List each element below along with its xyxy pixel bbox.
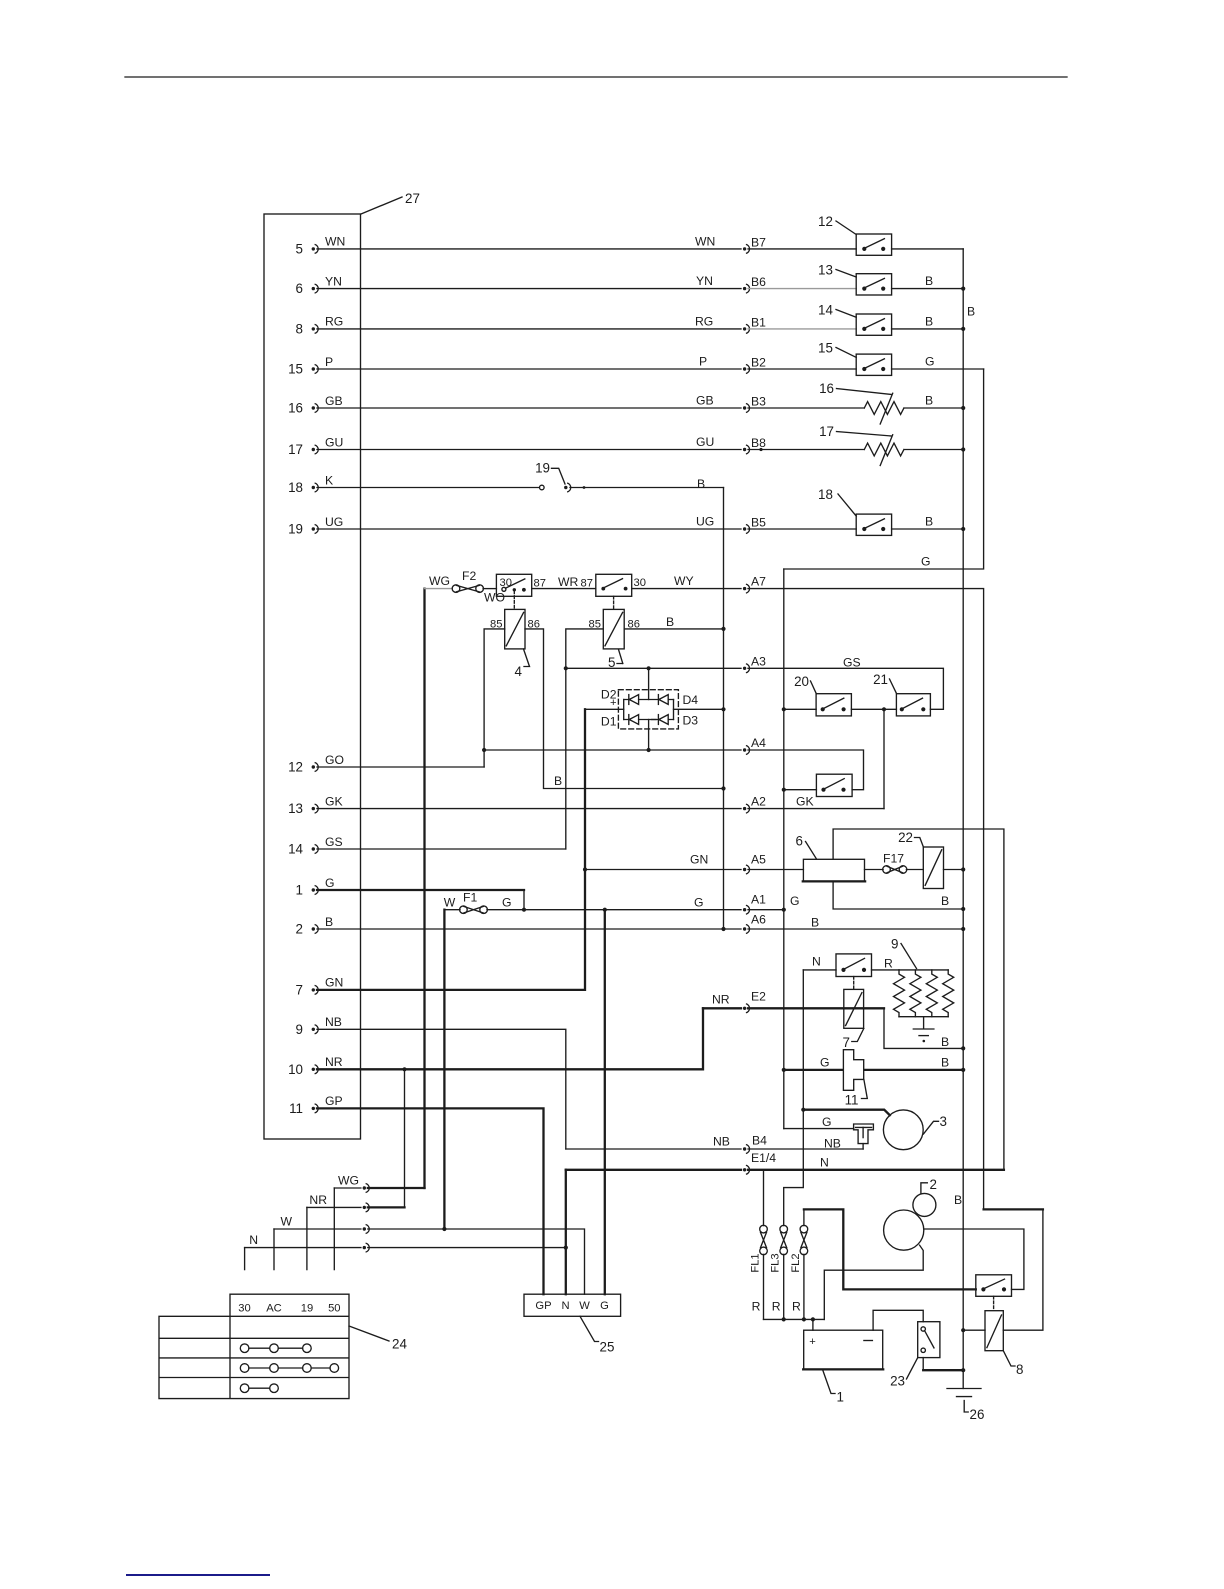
wire B pin2 to A6 [317, 913, 963, 934]
svg-text:30: 30 [238, 1303, 250, 1315]
svg-text:3: 3 [940, 1114, 947, 1129]
wire WN pin5 to B7 [317, 235, 856, 254]
wire G from switch15 down and jog left [784, 369, 984, 569]
svg-text:A1: A1 [751, 893, 766, 907]
svg-text:1: 1 [837, 1390, 844, 1405]
svg-text:B: B [925, 274, 933, 288]
svg-text:E1/4: E1/4 [751, 1151, 776, 1165]
pin 18 (K) of C27 [288, 473, 333, 495]
svg-text:B3: B3 [751, 395, 766, 409]
resistor bank 9 [891, 937, 954, 1017]
pin 1 (G) of C27 [296, 876, 335, 898]
svg-text:GK: GK [796, 795, 814, 809]
wire W vertical from F1 [443, 910, 445, 1229]
circuit breaker 11 [843, 1050, 867, 1108]
wire box6 bottom to B bus [833, 881, 963, 909]
diode bridge dashed enclosure [618, 690, 678, 729]
wire P pin15 to B2 [317, 355, 856, 374]
svg-text:23: 23 [890, 1374, 905, 1389]
svg-text:NB: NB [713, 1135, 730, 1149]
pin 8 (RG) of C27 [296, 315, 344, 337]
svg-text:G: G [502, 896, 511, 910]
svg-text:GU: GU [696, 435, 714, 449]
switch GK [784, 774, 852, 796]
svg-text:B: B [554, 774, 562, 788]
svg-text:30: 30 [634, 577, 646, 589]
wire GB pin16 to B3 [317, 394, 864, 413]
wire YN pin6 to B6 [317, 274, 856, 293]
fuse F1 [444, 891, 512, 914]
svg-text:N: N [249, 1233, 258, 1247]
wire G vertical from F1 to plug box [604, 910, 606, 1294]
fuse FL2 [790, 1225, 808, 1319]
bridge left wire from GN [585, 708, 624, 710]
svg-text:2: 2 [930, 1177, 937, 1192]
wire A5 row GN [585, 853, 803, 875]
svg-text:9: 9 [296, 1022, 303, 1037]
svg-text:R: R [752, 1300, 761, 1314]
pin 5 (WN) of C27 [296, 235, 346, 257]
svg-text:G: G [822, 1115, 831, 1129]
svg-text:B: B [666, 615, 674, 629]
svg-text:NR: NR [325, 1055, 343, 1069]
svg-text:WG: WG [338, 1174, 359, 1188]
svg-text:B: B [811, 916, 819, 930]
svg-text:2: 2 [296, 922, 303, 937]
wire WY relay5 to A7 [632, 588, 741, 590]
variable resistor 17 [819, 424, 904, 466]
relay 4 coil [490, 609, 540, 649]
wire dynamo D to switch 8 [924, 1229, 1024, 1289]
svg-text:FL2: FL2 [790, 1253, 802, 1272]
wire N E1/4 row [566, 1151, 1004, 1175]
wire RG pin8 to B1 [317, 315, 856, 334]
wire resistor17 out [904, 449, 963, 451]
svg-text:25: 25 [600, 1340, 615, 1355]
svg-text:WG: WG [429, 574, 450, 588]
svg-text:B: B [325, 915, 333, 929]
fuse FL3 [770, 1225, 788, 1319]
pin 11 (GP) of C27 [289, 1094, 343, 1116]
harness pin NR [307, 1069, 405, 1269]
svg-text:RG: RG [325, 315, 343, 329]
svg-text:WN: WN [695, 235, 715, 249]
wire NB B4 row [566, 1134, 863, 1154]
svg-text:R: R [792, 1300, 801, 1314]
svg-text:B: B [954, 1193, 962, 1207]
harness pin N [245, 1233, 566, 1270]
wire B switch13 out [892, 274, 964, 288]
instrument stabilizer 6 [796, 834, 866, 882]
wire GU pin17 to B8 [317, 435, 864, 454]
svg-text:B1: B1 [751, 316, 766, 330]
svg-text:10: 10 [288, 1062, 303, 1077]
svg-text:B: B [967, 305, 975, 319]
wire K pin18 to switch 19 [317, 487, 539, 489]
battery 1 [803, 1310, 923, 1404]
pin 7 (GN) of C27 [296, 976, 344, 998]
svg-text:B: B [941, 894, 949, 908]
fuse FL1 [750, 1225, 768, 1319]
battery master switch 23 [890, 1322, 940, 1389]
svg-text:GP: GP [325, 1094, 343, 1108]
label 5 [608, 650, 623, 671]
svg-text:16: 16 [288, 401, 303, 416]
svg-text:22: 22 [898, 830, 913, 845]
bridge right wire to B node [674, 708, 724, 710]
svg-text:UG: UG [325, 515, 343, 529]
relay coil 8 [963, 1311, 1023, 1377]
svg-text:F1: F1 [463, 891, 477, 905]
switch contact 14 [818, 303, 892, 336]
earth ground 26 [947, 1389, 984, 1423]
label 24 leader [349, 1326, 407, 1352]
svg-text:N: N [561, 1300, 569, 1312]
pin 9 (NB) of C27 [296, 1015, 342, 1037]
wire UG pin19 to B5 [317, 515, 856, 534]
svg-text:D3: D3 [683, 714, 699, 728]
switch contact 18 [818, 487, 892, 535]
svg-text:GB: GB [696, 394, 714, 408]
svg-text:6: 6 [796, 834, 803, 849]
svg-text:17: 17 [288, 442, 303, 457]
svg-text:87: 87 [581, 578, 593, 590]
svg-text:WR: WR [558, 575, 579, 589]
bridge stem to A4 [647, 720, 651, 753]
svg-text:7: 7 [843, 1035, 850, 1050]
svg-text:K: K [325, 473, 333, 487]
svg-text:21: 21 [873, 672, 888, 687]
diode D4 [658, 693, 698, 707]
diode D1 [601, 715, 639, 729]
wire G switch15 out [892, 355, 984, 369]
svg-text:8: 8 [1016, 1362, 1023, 1377]
svg-text:G: G [600, 1300, 609, 1312]
svg-text:15: 15 [288, 362, 303, 377]
svg-text:G: G [325, 876, 334, 890]
label 25 leader [580, 1316, 614, 1354]
wire NR pin10 to E2 [317, 1008, 703, 1071]
wire GS row to switches 20/21 [784, 656, 861, 710]
svg-text:6: 6 [296, 281, 303, 296]
wire R charge line FL2 to cutout switch 8 [804, 1209, 976, 1289]
svg-text:18: 18 [818, 487, 833, 502]
svg-text:13: 13 [288, 801, 303, 816]
wire B switch18 out [892, 515, 964, 529]
wire E1/4 to FL1 [763, 1170, 765, 1226]
relay 5 contact (87-30) [596, 574, 646, 609]
fuse F2 [425, 569, 505, 605]
wire A3 row [566, 654, 944, 709]
svg-text:W: W [444, 896, 456, 910]
pin 17 (GU) of C27 [288, 435, 343, 457]
diode D2 [601, 688, 639, 705]
svg-text:G: G [694, 896, 703, 910]
svg-text:A3: A3 [751, 654, 766, 668]
svg-text:WN: WN [325, 235, 345, 249]
ground under resistor bank [913, 1017, 934, 1043]
wire B relay7 out [884, 1008, 963, 1049]
svg-text:16: 16 [819, 381, 834, 396]
relay coil 22 [898, 830, 963, 908]
wire GK pin13 row to A2 [317, 795, 884, 814]
svg-text:26: 26 [970, 1407, 985, 1422]
svg-text:GK: GK [325, 794, 343, 808]
svg-text:24: 24 [392, 1337, 407, 1352]
svg-text:GB: GB [325, 394, 343, 408]
svg-text:D1: D1 [601, 715, 617, 729]
svg-text:W: W [579, 1300, 590, 1312]
wire GO pin12 run [317, 766, 484, 768]
svg-text:GU: GU [325, 435, 343, 449]
cutout switch 8 [976, 1275, 1012, 1311]
wire NB plug to B4 [824, 1137, 863, 1151]
svg-text:17: 17 [819, 424, 834, 439]
switch 21 [873, 672, 930, 716]
switch contact 12 [818, 214, 892, 255]
wire B switch14 out [892, 315, 964, 329]
svg-text:30: 30 [500, 577, 512, 589]
pin 13 (GK) of C27 [288, 794, 343, 816]
connector C27 body [264, 214, 361, 1139]
svg-text:19: 19 [535, 461, 550, 476]
svg-text:E2: E2 [751, 989, 766, 1003]
svg-text:B: B [941, 1056, 949, 1070]
svg-text:NR: NR [712, 992, 730, 1006]
svg-text:WY: WY [674, 574, 694, 588]
svg-text:A6: A6 [751, 913, 766, 927]
wire GN pin7 up to bridge [317, 709, 587, 990]
svg-text:UG: UG [696, 515, 714, 529]
pin 6 (YN) of C27 [296, 274, 342, 296]
pin 19 (UG) of C27 [288, 515, 343, 537]
svg-text:N: N [820, 1155, 829, 1169]
svg-text:B5: B5 [751, 516, 766, 530]
wire coil4 86 to B [525, 629, 724, 789]
wire switch12 out to B bus [892, 248, 964, 250]
svg-text:20: 20 [794, 674, 809, 689]
wire B resistor16 out [904, 394, 963, 408]
fuel gauge sender plug [854, 1124, 874, 1144]
svg-text:A7: A7 [751, 575, 766, 589]
svg-text:B: B [941, 1035, 949, 1049]
wire A7 net to relay 8 [674, 574, 984, 1209]
svg-text:GN: GN [690, 853, 708, 867]
switch contact 15 [818, 341, 892, 376]
relay 5 coil [589, 609, 640, 649]
svg-text:B6: B6 [751, 275, 766, 289]
wire NB pin9 down to B4 [317, 1029, 566, 1149]
B bus vertical [963, 249, 975, 1389]
svg-text:D4: D4 [683, 693, 699, 707]
svg-text:R: R [884, 957, 893, 971]
svg-text:GO: GO [325, 753, 344, 767]
battery positive rail [764, 1317, 825, 1321]
wire coil5 86 to B [624, 615, 723, 629]
label 27 leader [361, 191, 420, 214]
fuse F17 [865, 852, 924, 874]
svg-text:G: G [820, 1056, 829, 1070]
wire GP pin11 down to plug box [317, 1108, 544, 1294]
label 4 [515, 649, 530, 679]
wire WR relay4 to relay5 [532, 575, 596, 590]
diode D3 [658, 714, 698, 728]
switch contact 13 [818, 263, 892, 296]
dynamo 2 [884, 1177, 963, 1250]
svg-text:B: B [925, 394, 933, 408]
svg-text:+: + [809, 1336, 816, 1348]
svg-text:A4: A4 [751, 736, 766, 750]
wire G to breaker 11 to B [784, 1056, 963, 1070]
svg-text:11: 11 [289, 1101, 303, 1116]
svg-text:FL1: FL1 [750, 1253, 762, 1272]
wire between switch 20 and 21 [851, 707, 896, 711]
svg-text:W: W [280, 1215, 292, 1229]
svg-text:5: 5 [296, 242, 303, 257]
wire WG vertical [423, 589, 425, 1188]
wire G vertical bus to lamp [782, 569, 800, 1129]
svg-text:13: 13 [818, 263, 833, 278]
pin 10 (NR) of C27 [288, 1055, 343, 1077]
wire node B vertical (switch19 to A6) [721, 488, 725, 932]
svg-text:G: G [925, 355, 934, 369]
pin 2 (B) of C27 [296, 915, 334, 937]
svg-text:GN: GN [325, 976, 343, 990]
svg-text:P: P [699, 355, 707, 369]
bridge stem to A3 [648, 668, 650, 699]
switch N-R of relay 7 [803, 954, 899, 990]
svg-text:FL3: FL3 [770, 1253, 782, 1272]
svg-text:15: 15 [818, 341, 833, 356]
svg-text:4: 4 [515, 664, 523, 679]
svg-text:50: 50 [328, 1303, 340, 1315]
svg-text:G: G [921, 555, 930, 569]
svg-text:11: 11 [845, 1093, 859, 1108]
svg-text:P: P [325, 355, 333, 369]
svg-text:NB: NB [325, 1015, 342, 1029]
svg-text:AC: AC [266, 1303, 282, 1315]
svg-text:87: 87 [534, 578, 546, 590]
svg-text:GS: GS [325, 835, 343, 849]
pin 16 (GB) of C27 [288, 394, 343, 416]
bridge frame wires [610, 697, 674, 720]
svg-text:14: 14 [818, 303, 833, 318]
svg-text:F17: F17 [883, 852, 904, 866]
wire dynamo F to battery rail [824, 1245, 923, 1319]
wire E2 row [703, 989, 884, 1013]
svg-text:B4: B4 [752, 1134, 767, 1148]
svg-text:+: + [610, 697, 617, 709]
svg-text:B2: B2 [751, 356, 766, 370]
svg-text:A2: A2 [751, 795, 766, 809]
horn 3 [883, 1110, 947, 1150]
wire G to plug [784, 1115, 854, 1129]
svg-text:YN: YN [696, 274, 713, 288]
pin 14 (GS) of C27 [288, 835, 343, 857]
svg-text:GS: GS [843, 656, 861, 670]
wire box6 top to N net [833, 829, 1004, 1170]
switch 19 [535, 461, 571, 493]
wire GS pin14 run [317, 848, 566, 850]
wire N to horn [801, 1108, 890, 1116]
pin 12 (GO) of C27 [288, 753, 344, 775]
svg-text:8: 8 [296, 322, 303, 337]
relay coil 7 [843, 989, 864, 1050]
top rule [125, 76, 1067, 78]
svg-text:WO: WO [484, 591, 505, 605]
wire coil5 85 to GS node [564, 629, 604, 849]
wire relay8 feed top [984, 1209, 1043, 1330]
svg-text:RG: RG [695, 315, 713, 329]
svg-text:B: B [697, 477, 705, 491]
connector block 25 [524, 1294, 621, 1316]
svg-text:F2: F2 [462, 569, 476, 583]
wire switch 23 to earth bus [923, 1358, 963, 1371]
connector table 24 [159, 1294, 349, 1398]
wire N vertical to box 25 [564, 1170, 568, 1294]
svg-text:12: 12 [288, 760, 303, 775]
wire A4 row [484, 736, 863, 790]
switch 20 [794, 674, 851, 716]
relay 4 contact (30-87) [496, 574, 546, 609]
svg-text:9: 9 [891, 937, 898, 952]
wire A2 to node between 20/21 [883, 709, 885, 808]
svg-text:YN: YN [325, 274, 342, 288]
svg-text:GP: GP [535, 1300, 551, 1312]
svg-text:18: 18 [288, 480, 303, 495]
wire G fuse to A1 [487, 893, 784, 915]
svg-text:19: 19 [301, 1303, 313, 1315]
svg-text:B7: B7 [751, 236, 766, 250]
svg-text:B8: B8 [751, 436, 766, 450]
wire N switch feed to FL3 [784, 970, 804, 1226]
svg-text:NR: NR [309, 1193, 327, 1207]
pin 15 (P) of C27 [288, 355, 333, 377]
svg-text:B: B [925, 515, 933, 529]
svg-text:B: B [925, 315, 933, 329]
svg-text:12: 12 [818, 214, 833, 229]
wire coil4 85 to GO [482, 629, 505, 767]
svg-text:A5: A5 [751, 853, 766, 867]
wire charge line to FL2 [803, 1209, 805, 1225]
B bus junction dots [961, 287, 965, 1373]
wire G pin1 [317, 890, 524, 910]
svg-text:R: R [772, 1300, 781, 1314]
svg-text:14: 14 [288, 842, 303, 857]
variable resistor 16 [819, 381, 904, 424]
svg-text:19: 19 [288, 522, 303, 537]
svg-text:G: G [790, 894, 799, 908]
svg-text:27: 27 [405, 191, 420, 206]
harness pin W [274, 1215, 585, 1295]
svg-text:N: N [812, 955, 821, 969]
wire B from switch 19 to node [570, 477, 724, 491]
svg-text:7: 7 [296, 983, 303, 998]
harness pin WG [334, 1174, 424, 1270]
svg-text:1: 1 [296, 883, 303, 898]
footer blue line [126, 1574, 270, 1576]
